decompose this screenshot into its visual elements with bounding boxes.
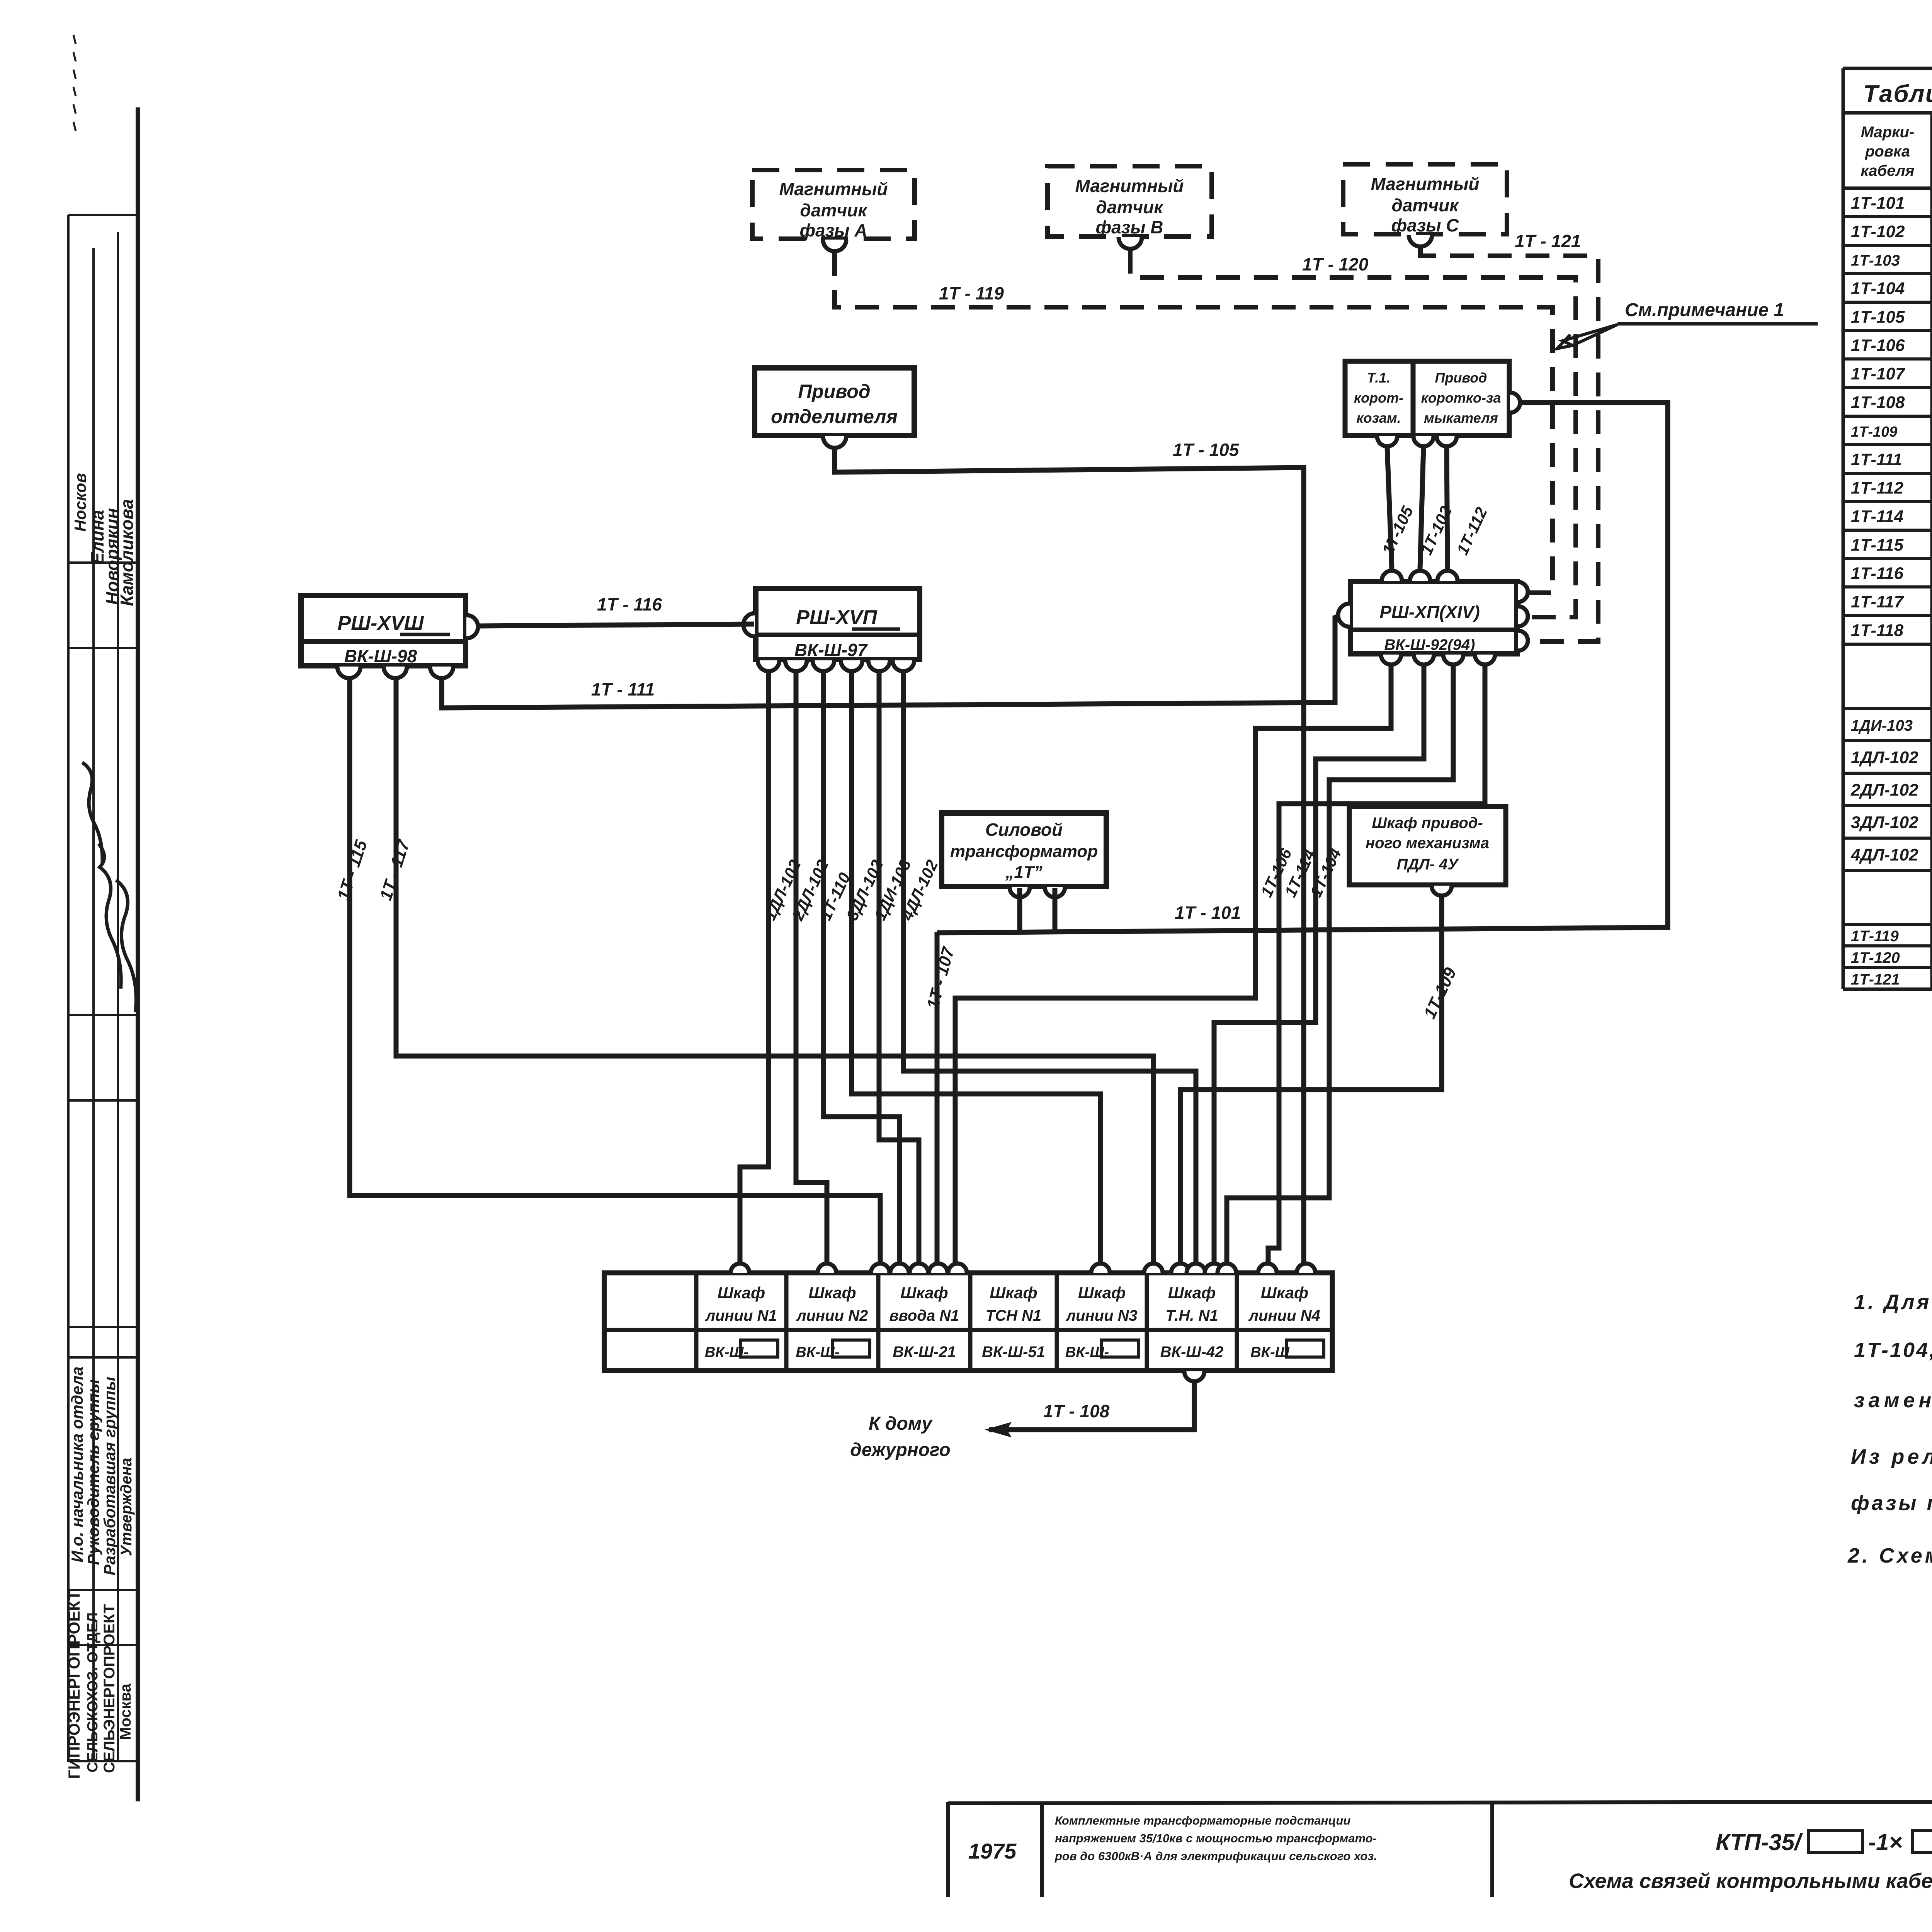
- table row 1T-101: [1843, 215, 1932, 218]
- margin top tick marks: [73, 35, 76, 44]
- svg-text:1Т - 108: 1Т - 108: [1043, 1401, 1110, 1421]
- svg-text:Шкаф: Шкаф: [1168, 1284, 1216, 1302]
- connector RSh-XII top 3: [1437, 571, 1458, 581]
- svg-text:Силовой: Силовой: [985, 820, 1063, 840]
- svg-text:ТСН N1: ТСН N1: [986, 1307, 1041, 1324]
- svg-text:линии N4: линии N4: [1248, 1307, 1320, 1324]
- svg-text:отделителя: отделителя: [771, 406, 898, 427]
- svg-text:Комплектные трансформаторные п: Комплектные трансформаторные подстанции: [1055, 1814, 1350, 1827]
- svg-text:1Т-121: 1Т-121: [1851, 971, 1900, 988]
- svg-text:Шкаф: Шкаф: [900, 1284, 948, 1302]
- bottom row vertical divider 2: [784, 1273, 789, 1371]
- title block vertical 2: [1040, 1802, 1044, 1897]
- connector RSh-XII left: [1338, 604, 1350, 627]
- box bottom shkaf row outline: [604, 1273, 1332, 1371]
- arrow 1T-108: [985, 1422, 1012, 1437]
- connector transformator 2: [1045, 887, 1065, 897]
- bottom row vertical divider 5: [1055, 1273, 1059, 1371]
- svg-text:1Т-116: 1Т-116: [1851, 564, 1904, 583]
- svg-text:линии N1: линии N1: [705, 1307, 777, 1324]
- table row 1T-114: [1843, 529, 1932, 532]
- svg-text:РШ-ХП(ХIV): РШ-ХП(ХIV): [1379, 602, 1480, 622]
- wire 1T-115: [350, 679, 880, 1263]
- connector RSh-XVII left: [743, 613, 755, 636]
- margin column line 3: [117, 232, 119, 1762]
- table row 1T-118: [1843, 643, 1932, 646]
- connector bottom row top 12: [1205, 1264, 1223, 1273]
- svg-text:1Т-108: 1Т-108: [1851, 393, 1905, 412]
- svg-text:напряжением 35/10кв с мощность: напряжением 35/10кв с мощностью трансфор…: [1055, 1832, 1377, 1845]
- svg-text:ввода N1: ввода N1: [889, 1307, 959, 1324]
- title block top line: [948, 1801, 1932, 1803]
- svg-text:трансформатор: трансформатор: [950, 842, 1098, 861]
- table row 1T-115: [1843, 557, 1932, 560]
- svg-text:ГИПРОЭНЕРГОПРОЕКТ: ГИПРОЭНЕРГОПРОЕКТ: [65, 1590, 83, 1779]
- svg-text:ровка: ровка: [1865, 143, 1910, 160]
- svg-text:1Т-109: 1Т-109: [1851, 424, 1897, 440]
- wire 1DL-102 from RSh-XVII pin1: [740, 673, 769, 1263]
- connector RSh-XII right 1: [1518, 582, 1528, 602]
- svg-text:1Т-104, 1Т-112, 1Т-114 исключ: 1Т-104, 1Т-112, 1Т-114 исключить, а реле…: [1854, 1338, 1932, 1362]
- svg-text:дежурного: дежурного: [850, 1440, 951, 1460]
- svg-text:фазы А: фазы А: [799, 220, 867, 240]
- svg-text:ПДЛ- 4У: ПДЛ- 4У: [1397, 856, 1459, 873]
- table row 1T-105: [1843, 329, 1932, 332]
- svg-text:Марки-: Марки-: [1861, 124, 1915, 141]
- svg-text:1Т-101: 1Т-101: [1851, 194, 1905, 213]
- table row 1T-104: [1843, 301, 1932, 304]
- svg-text:ВК-Ш: ВК-Ш: [1250, 1344, 1289, 1361]
- connector bottom row top 15: [1297, 1264, 1315, 1273]
- svg-text:1Т-106: 1Т-106: [1851, 336, 1905, 355]
- svg-text:ВК-Ш-97: ВК-Ш-97: [794, 640, 868, 660]
- svg-text:ВК-Ш-42: ВК-Ш-42: [1160, 1344, 1224, 1361]
- svg-text:козам.: козам.: [1356, 410, 1401, 426]
- svg-text:1Т - 101: 1Т - 101: [1175, 903, 1241, 923]
- svg-text:Шкаф: Шкаф: [1261, 1284, 1308, 1302]
- svg-text:линии N2: линии N2: [796, 1307, 868, 1324]
- svg-text:1Т-103: 1Т-103: [1851, 252, 1900, 269]
- svg-text:Камоликова: Камоликова: [117, 499, 137, 606]
- svg-text:1Т-105: 1Т-105: [1851, 308, 1905, 327]
- box RSh-XVIII: [301, 595, 466, 666]
- connector RSh-XII bottom 4: [1475, 655, 1495, 665]
- svg-text:Т.Н. N1: Т.Н. N1: [1165, 1307, 1218, 1324]
- svg-text:1Т-117: 1Т-117: [1851, 592, 1905, 611]
- connector bottom row top 5: [910, 1264, 928, 1273]
- svg-text:заменить на РШ-ХIV.: заменить на РШ-ХIV.: [1854, 1389, 1932, 1412]
- wire 1T-116 between RSh-XVIII and RSh-XVII: [479, 624, 754, 626]
- connector RSh-XII bottom 2: [1414, 655, 1434, 665]
- svg-text:Москва: Москва: [117, 1683, 134, 1740]
- connector RSh-XVIII bottom 3: [430, 667, 453, 678]
- table row 2DL-102: [1843, 804, 1932, 807]
- table row 1T-119: [1843, 944, 1932, 947]
- wire 1DI-103 from RSh-XVII pin5: [879, 673, 919, 1263]
- connector privod korotkozam right: [1510, 393, 1520, 413]
- arrow to dashed cables: [1563, 325, 1617, 345]
- svg-text:ВК-Ш-92(94): ВК-Ш-92(94): [1384, 636, 1475, 653]
- svg-text:СЕЛЬЭНЕРГОПРОЕКТ: СЕЛЬЭНЕРГОПРОЕКТ: [101, 1604, 118, 1773]
- table row 1T-102: [1843, 244, 1932, 247]
- svg-text:3ДЛ-102: 3ДЛ-102: [1851, 813, 1918, 832]
- svg-text:ВК-Ш-51: ВК-Ш-51: [982, 1344, 1045, 1361]
- connector bottom row top 9: [1144, 1264, 1163, 1273]
- table title band: [1843, 67, 1932, 70]
- table row 1T-107: [1843, 386, 1932, 389]
- margin row separators: [68, 214, 138, 216]
- svg-text:1. Для подстанций с магнитн: 1. Для подстанций с магнитными датчиками…: [1854, 1291, 1932, 1314]
- margin signature squiggle 3: [111, 879, 147, 1012]
- svg-text:И.о. начальника отдела: И.о. начальника отдела: [68, 1366, 86, 1562]
- connector RSh-XVIII bottom 1: [337, 667, 361, 678]
- wire 2DL-102 from RSh-XVII pin2: [796, 673, 827, 1263]
- svg-text:Шкаф: Шкаф: [990, 1284, 1037, 1302]
- svg-text:Шкаф: Шкаф: [1078, 1284, 1126, 1302]
- box shkaf privodnogo mekhanizma PDL-4U: [1349, 806, 1506, 885]
- connector bottom row top 8: [1091, 1264, 1110, 1273]
- svg-text:1Т - 116: 1Т - 116: [597, 594, 662, 614]
- svg-text:фазы С: фазы С: [1391, 215, 1459, 235]
- table row 1T-120: [1843, 966, 1932, 969]
- title block vertical 1: [946, 1802, 950, 1897]
- wire 1T-111 RSh-XVIII to RSh-XII: [442, 616, 1339, 708]
- wire 1T-109 from PDL: [1180, 896, 1442, 1263]
- table row 1T-108: [1843, 415, 1932, 418]
- margin signature squiggle 2: [90, 843, 132, 989]
- connector bottom row top 14: [1258, 1264, 1277, 1273]
- svg-text:ров до 6300кВ·А для электрифик: ров до 6300кВ·А для электрификации сельс…: [1054, 1849, 1377, 1863]
- svg-text:Привод: Привод: [798, 381, 870, 402]
- svg-text:2. Схему связей силовыми ка: 2. Схему связей силовыми кабелями см. ли…: [1847, 1544, 1932, 1567]
- svg-text:„1Т”: „1Т”: [1005, 863, 1042, 882]
- connector korotkozam 2: [1413, 436, 1434, 446]
- svg-text:1Т - 119: 1Т - 119: [939, 283, 1004, 303]
- connector korotkozam 1: [1377, 436, 1397, 446]
- table row 1T-116: [1843, 585, 1932, 588]
- box magnit sensor phase B: [1048, 166, 1212, 236]
- box RSh-XII (XIV): [1350, 582, 1517, 654]
- wire 1T-101 transformer drop 2: [1053, 888, 1058, 930]
- table row 1T-103: [1843, 272, 1932, 275]
- svg-text:корот-: корот-: [1354, 390, 1403, 406]
- wire RSh-XII bottom3 staircase: [1227, 665, 1453, 1263]
- svg-text:датчик: датчик: [800, 200, 868, 220]
- svg-text:1ДИ-103: 1ДИ-103: [1851, 717, 1913, 734]
- svg-text:ного механизма: ного механизма: [1366, 835, 1489, 852]
- svg-text:1Т-107: 1Т-107: [1851, 364, 1906, 383]
- margin column line 2: [92, 248, 95, 1762]
- table row 1DL-102: [1843, 772, 1932, 775]
- svg-text:Шкаф привод-: Шкаф привод-: [1372, 815, 1483, 832]
- svg-text:Т.1.: Т.1.: [1367, 370, 1391, 386]
- svg-text:Разработавшая группы: Разработавшая группы: [100, 1377, 119, 1575]
- wire 1T-119 dashed: [835, 252, 1553, 593]
- table row 1T-112: [1843, 500, 1932, 503]
- wire 1T-110 from RSh-XVII pin3: [823, 673, 900, 1263]
- wire RSh-XII bottom2 staircase: [1214, 665, 1424, 1263]
- svg-text:1Т-120: 1Т-120: [1851, 949, 1900, 966]
- box privod korotkozamykatelya: [1413, 361, 1509, 435]
- connector korotkozam 3: [1437, 436, 1457, 446]
- svg-text:1Т-112: 1Т-112: [1851, 479, 1904, 498]
- wire 1T-121 dashed: [1420, 247, 1598, 641]
- connector RSh-XII bottom 3: [1443, 655, 1463, 665]
- table row 1T-109: [1843, 443, 1932, 446]
- connector RSh-XVIII bottom 2: [384, 667, 407, 678]
- connector sensor B: [1119, 237, 1142, 249]
- svg-text:фазы В: фазы В: [1095, 217, 1163, 237]
- connector bottom row top 4: [890, 1264, 909, 1273]
- connector RSh-XII top 2: [1410, 571, 1430, 581]
- wire 1T-101 transformer drop 1: [1017, 888, 1022, 930]
- svg-text:Привод: Привод: [1435, 370, 1487, 386]
- wire 1T-108 to dezhurny house: [989, 1381, 1194, 1430]
- svg-text:датчик: датчик: [1391, 195, 1459, 215]
- connector RSh-XVII bottom 6: [893, 660, 914, 671]
- svg-text:1975: 1975: [968, 1839, 1017, 1863]
- svg-text:1Т - 121: 1Т - 121: [1515, 231, 1581, 251]
- bottom row vertical divider 6: [1145, 1273, 1149, 1371]
- table row 1T-121: [1843, 988, 1932, 991]
- svg-text:Из релейного шкафа РШ-ХIV к: Из релейного шкафа РШ-ХIV к магнитному д…: [1851, 1445, 1932, 1468]
- wire 1T-101 main run: [937, 403, 1668, 933]
- wire 3DL-102 from RSh-XVII pin4: [852, 673, 1100, 1263]
- svg-text:К дому: К дому: [869, 1413, 933, 1434]
- svg-text:1Т-119: 1Т-119: [1851, 928, 1899, 945]
- svg-text:коротко-за: коротко-за: [1421, 390, 1501, 406]
- connector PDL bottom: [1432, 886, 1452, 896]
- title block vertical 3: [1490, 1802, 1494, 1897]
- svg-text:Таблица связей, выполненных: Таблица связей, выполненных контрольными…: [1863, 80, 1932, 107]
- svg-text:ВК-Ш-21: ВК-Ш-21: [893, 1344, 956, 1361]
- svg-text:СЕЛЬСКОХОЗ. ОТДЕЛ: СЕЛЬСКОХОЗ. ОТДЕЛ: [85, 1612, 101, 1772]
- connector RSh-XVII bottom 2: [785, 660, 807, 671]
- svg-text:Утверждена: Утверждена: [118, 1458, 135, 1556]
- svg-text:Носков: Носков: [71, 473, 89, 532]
- connector bottom row top 1: [731, 1264, 749, 1273]
- connector RSh-XII bottom 1: [1381, 655, 1401, 665]
- svg-text:1Т - 111: 1Т - 111: [591, 679, 655, 699]
- svg-text:Магнитный: Магнитный: [779, 179, 888, 199]
- svg-text:Магнитный: Магнитный: [1371, 174, 1480, 194]
- connector sensor A: [823, 240, 846, 251]
- wire 1T-120 dashed: [1130, 250, 1576, 617]
- connector bottom row top 3: [871, 1264, 889, 1273]
- svg-text:2ДЛ-102: 2ДЛ-102: [1850, 781, 1918, 799]
- margin column line 1: [67, 215, 70, 1762]
- connector privod otdelitelya: [823, 436, 846, 448]
- bottom row horizontal divider: [604, 1328, 1332, 1332]
- connector RSh-XVIII right: [466, 615, 478, 638]
- table row 1T-117: [1843, 614, 1932, 617]
- svg-text:Шкаф: Шкаф: [718, 1284, 765, 1302]
- table row 3DL-102: [1843, 837, 1932, 840]
- connector bottom row top 6: [929, 1264, 947, 1273]
- wire RSh-XII bottom1 staircase to vvoda N1: [955, 665, 1391, 1263]
- svg-text:КТП-35/: КТП-35/: [1716, 1829, 1803, 1855]
- svg-text:1ДЛ-102: 1ДЛ-102: [1851, 748, 1918, 767]
- wire 4DL-102 from RSh-XVII pin6: [903, 673, 1196, 1263]
- svg-text:кабеля: кабеля: [1861, 162, 1915, 179]
- wire korotkozam cable 2 to RSh-XII top2: [1420, 447, 1423, 569]
- connector transformator 1: [1010, 887, 1030, 897]
- bottom row vertical divider 1: [694, 1273, 699, 1371]
- bottom row vertical divider 7: [1235, 1273, 1239, 1371]
- wire korotkozam cable 3 to RSh-XII top3: [1447, 447, 1447, 569]
- box T.1 korotkozam: [1345, 361, 1413, 435]
- box privod otdelitelya: [755, 368, 914, 435]
- svg-text:Схема связей контрольными: Схема связей контрольными кабелями: [1569, 1869, 1932, 1893]
- margin signature squiggle 1: [77, 761, 113, 865]
- svg-text:Руководитель группы: Руководитель группы: [84, 1379, 102, 1565]
- connector RSh-XII top 1: [1382, 571, 1402, 581]
- connector bottom row top 10: [1171, 1264, 1190, 1273]
- drawing frame left edge: [136, 107, 140, 1801]
- svg-text:1Т-114: 1Т-114: [1851, 507, 1903, 526]
- table header row: [1843, 187, 1932, 190]
- connector RSh-XVII bottom 1: [758, 660, 779, 671]
- svg-text:1Т-111: 1Т-111: [1851, 450, 1902, 469]
- bottom row vertical divider 3: [876, 1273, 881, 1371]
- table row 1T-111: [1843, 472, 1932, 475]
- svg-text:1Т-118: 1Т-118: [1851, 621, 1904, 640]
- svg-text:1Т - 120: 1Т - 120: [1302, 254, 1369, 274]
- svg-text:1Т - 105: 1Т - 105: [1173, 440, 1240, 460]
- svg-text:Магнитный: Магнитный: [1075, 176, 1184, 196]
- table row 1T-106: [1843, 357, 1932, 361]
- svg-text:1Т-102: 1Т-102: [1851, 222, 1905, 241]
- svg-text:-1×: -1×: [1868, 1829, 1902, 1855]
- connector bottom row top 11: [1187, 1264, 1205, 1273]
- box magnit sensor phase A: [752, 170, 915, 239]
- connector RSh-XVII bottom 4: [841, 660, 862, 671]
- svg-text:РШ-ХVШ: РШ-ХVШ: [337, 612, 424, 634]
- box RSh-XVII: [756, 588, 920, 660]
- connector RSh-XII right 2: [1518, 606, 1528, 626]
- svg-text:См.примечание 1: См.примечание 1: [1625, 300, 1784, 320]
- svg-text:РШ-ХVП: РШ-ХVП: [796, 606, 878, 629]
- svg-text:ВК-Ш-98: ВК-Ш-98: [344, 646, 417, 666]
- svg-text:мыкателя: мыкателя: [1424, 410, 1498, 426]
- svg-text:Шкаф: Шкаф: [808, 1284, 856, 1302]
- connector bottom row bottom TN: [1184, 1371, 1204, 1381]
- wire RSh-XII bottom4 staircase: [1268, 665, 1485, 1263]
- connector RSh-XVII bottom 5: [868, 660, 890, 671]
- svg-text:1Т-115: 1Т-115: [1851, 536, 1904, 554]
- table empty row A: [1843, 707, 1932, 710]
- connector sensor C: [1409, 235, 1432, 247]
- svg-text:датчик: датчик: [1096, 197, 1164, 217]
- connector bottom row top 13: [1218, 1264, 1236, 1273]
- box magnit sensor phase C: [1343, 164, 1507, 234]
- table row 1DI-103: [1843, 739, 1932, 742]
- svg-text:линии N3: линии N3: [1065, 1307, 1138, 1324]
- connector RSh-XVII bottom 3: [813, 660, 834, 671]
- bottom row vertical divider 4: [968, 1273, 973, 1371]
- connector RSh-XII right 3: [1518, 631, 1528, 651]
- svg-text:4ДЛ-102: 4ДЛ-102: [1850, 845, 1918, 864]
- svg-text:фазы прокладываются кабели 1: фазы прокладываются кабели 1Т-119, 1Т-12…: [1851, 1492, 1932, 1515]
- wire 1T-117: [396, 679, 1153, 1263]
- svg-text:1Т-104: 1Т-104: [1851, 279, 1905, 298]
- table empty row B: [1843, 923, 1932, 926]
- table row 4DL-102: [1843, 869, 1932, 872]
- box silovoy transformator 1T: [942, 813, 1106, 886]
- connector bottom row top 2: [818, 1264, 836, 1273]
- wire 1T-105 from privod otdelitelya: [835, 449, 1304, 1263]
- wire korotkozam cable 1 to RSh-XII top1: [1387, 447, 1392, 569]
- connector bottom row top 7: [948, 1264, 967, 1273]
- wire 1T-107: [935, 932, 940, 1263]
